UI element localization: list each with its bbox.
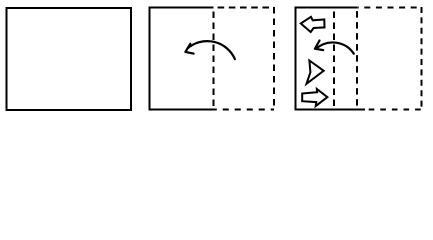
sheet 3: folded page solid outline [296,8,366,110]
sheet 2: dashed bottom edge of folded-away half [217,109,275,111]
sheet 3: dashed right edge of unfolded extent [421,7,423,110]
sheet 3: inner fold line (dashed vertical) [333,8,335,110]
sheet 3: dashed top edge of unfolded extent [358,7,422,9]
sheet 3: curved arrow head [315,41,323,51]
sheet 3: dashed vertical at right of solid half [356,8,358,110]
sheet 3: open arrowhead cursor pointing right (middle icon) [307,61,324,84]
sheet 3: block arrow pointing left (top icon) [301,17,325,32]
sheet 1: flat page (solid rectangle) [7,8,132,110]
sheet 2: fold-direction curved arrow (arc) [188,41,235,59]
sheet 3: block arrow pointing right (bottom icon) [302,89,327,106]
sheet 2: curved arrow head [185,44,193,54]
sheet 2: left half solid outline [150,8,217,110]
sheet 2: dashed right edge of folded-away half [273,7,275,110]
sheet 3: fold-direction curved arrow (arc) [316,42,354,53]
sheet 2: dashed top edge of folded-away half [214,7,275,9]
sheet 3: dashed bottom edge of unfolded extent [365,109,422,111]
sheet 2: fold line (dashed vertical) [213,8,215,110]
